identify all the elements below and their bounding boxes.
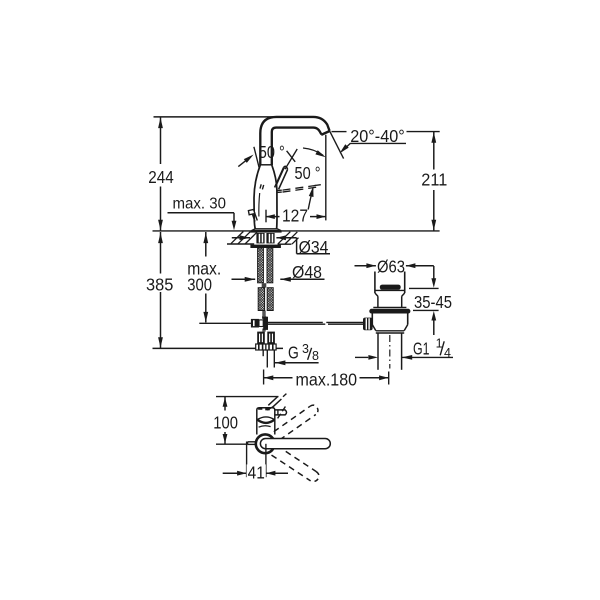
dimension O48 line (base diameter) <box>232 278 256 280</box>
svg-text:G: G <box>288 343 299 363</box>
dimension 100 bottom extension line <box>216 443 248 445</box>
angle 50 lower arc with arrow <box>308 189 313 210</box>
plan lever swung up dashed position <box>274 406 310 431</box>
dimension 211 line <box>433 132 435 170</box>
angle 50 upper right arc with arrow <box>303 148 323 155</box>
handle lever rod (solid position) <box>275 168 284 188</box>
drain plug chamfer and neck <box>375 293 378 296</box>
dimension 385 line <box>160 232 162 274</box>
dimension 244 line <box>160 117 162 164</box>
plan base circle <box>256 434 275 453</box>
dimension 385 bottom reference line (hose ends) <box>153 347 284 349</box>
plan body outline <box>256 410 258 435</box>
svg-text:100: 100 <box>213 413 238 433</box>
pop-up rod vertical link lower <box>262 329 264 332</box>
plan body top corner nubs <box>258 408 262 410</box>
svg-text:3: 3 <box>302 342 309 356</box>
svg-text:8: 8 <box>312 349 319 363</box>
faucet body right contour <box>272 165 277 229</box>
dimension max.180 line <box>264 375 274 380</box>
plan pop-up rod stub <box>248 441 257 443</box>
plan body cylinder rim ellipse <box>257 417 274 420</box>
dimension max.30 reference line and leader <box>168 212 235 214</box>
spout outlet level extension line (211 top reference) <box>332 131 347 133</box>
handle dashed position line <box>277 189 282 191</box>
dimension 127 axis tick <box>265 210 267 223</box>
hose end crimp left <box>257 332 265 344</box>
plan body top diagonal tick <box>267 406 274 410</box>
aerator angle diagonal line <box>330 131 344 158</box>
hose connection nut left <box>256 344 266 350</box>
svg-text:Ø34: Ø34 <box>299 237 329 257</box>
spout outlet face <box>321 131 330 135</box>
drain tailpipe G1 1/4 <box>377 333 379 370</box>
dimension O63 line <box>355 265 376 267</box>
pop-up rod knob on body left <box>252 213 255 222</box>
plan lever swung down dashed position <box>277 446 316 472</box>
angle 50 upper left leader and arrow <box>238 157 251 167</box>
countertop left section bottom line <box>227 243 254 245</box>
angle 50 upper reference tick <box>254 147 259 168</box>
handle rod inner line <box>276 168 284 186</box>
flexible hose right lower segment <box>267 288 273 311</box>
spout tip vertical extension line (211/127 reference) <box>325 135 327 221</box>
plan side lever rod <box>275 410 287 415</box>
svg-text:385: 385 <box>146 275 173 295</box>
drain body below flange <box>371 314 373 325</box>
svg-text:Ø48: Ø48 <box>292 262 322 282</box>
pop-up rod guide between hoses <box>262 283 267 287</box>
flexible hose right upper segment <box>267 248 273 283</box>
spout outer contour <box>260 117 329 165</box>
spout inner contour <box>272 128 322 165</box>
svg-text:max.180: max.180 <box>296 370 358 390</box>
plan spout stub <box>268 397 278 406</box>
dimension 41 right extension line (axis) <box>265 444 267 477</box>
svg-text:41: 41 <box>248 462 265 482</box>
pop-up rod pivot mechanism <box>251 319 259 328</box>
countertop right section bottom line <box>278 243 292 245</box>
dimension 35-45 line and arrows <box>433 266 435 279</box>
dimension max.180 left extension line <box>263 370 265 385</box>
dimension 100 line <box>224 397 226 411</box>
countertop right hatching <box>278 232 290 244</box>
dimension 127 line <box>266 216 280 218</box>
svg-text:211: 211 <box>421 170 447 190</box>
svg-text:244: 244 <box>148 167 174 187</box>
svg-text:max. 30: max. 30 <box>172 196 226 213</box>
dimension O34 leader arrow (tap hole) <box>276 235 286 240</box>
dimension max.180 right extension line <box>388 372 390 385</box>
drain clamp screw knob <box>363 318 373 331</box>
dimension 100 top extension line <box>216 396 279 398</box>
dimension 244 extension line (top of faucet) <box>154 116 278 118</box>
dimension 41 left extension line <box>246 442 248 478</box>
pop-up rod extension line left <box>199 322 251 324</box>
svg-text:G1: G1 <box>413 339 430 359</box>
faucet body joint hatch ticks <box>260 184 261 188</box>
drain flange <box>369 309 410 314</box>
G3/8 threaded pipe <box>266 350 268 368</box>
plan body inner arc below rim <box>259 426 271 427</box>
hose end crimp right <box>267 332 275 344</box>
svg-text:35-45: 35-45 <box>414 292 452 312</box>
spout-body joint line <box>260 164 272 166</box>
drain tailpipe center axis <box>389 335 391 369</box>
flexible hose left lower segment <box>258 288 264 311</box>
pop-up rod horizontal line <box>268 321 323 323</box>
plan lever rod solid position <box>260 439 330 449</box>
svg-text:50 °: 50 ° <box>295 163 321 183</box>
dimension O34 left arrow <box>232 237 250 239</box>
dimension 41 label <box>247 464 266 481</box>
dimension 35-45 bottom reference line <box>413 309 439 311</box>
countertop left hatching <box>231 232 243 244</box>
svg-text:300: 300 <box>187 275 212 295</box>
countertop surface line <box>153 230 440 232</box>
label G 3/8 leader arrow <box>275 360 286 365</box>
faucet body internal contour line <box>258 193 261 217</box>
dimension 41 line and arrows <box>223 472 247 474</box>
hose connection nut right <box>266 344 276 350</box>
drain plug head <box>374 272 376 294</box>
svg-text:Ø63: Ø63 <box>377 257 405 277</box>
pop-up rod vertical link <box>262 311 264 317</box>
plan dashed ticks near body <box>278 414 281 419</box>
dimension max.300 line <box>205 232 207 257</box>
mounting shank upper nuts <box>256 233 264 243</box>
angle 20-40 reference underline and leader arrow <box>351 142 407 144</box>
handle axis extension and cross marker <box>285 149 297 169</box>
flexible hose left upper segment <box>258 248 264 283</box>
faucet body left contour <box>254 165 260 229</box>
left hose tail stub <box>262 350 264 356</box>
dimension G1 1/4 pipe width arrows <box>355 356 368 358</box>
mounting locknut bar <box>250 245 281 248</box>
faucet base escutcheon <box>252 229 282 231</box>
svg-text:127: 127 <box>282 206 308 226</box>
svg-text:50 °: 50 ° <box>259 142 285 162</box>
dimension 35-45 top reference line <box>409 287 439 289</box>
